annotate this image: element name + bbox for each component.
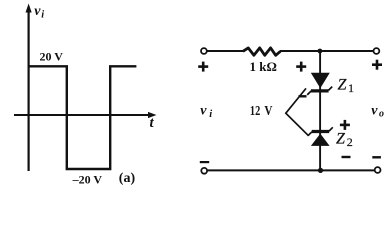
svg-text:1: 1 bbox=[348, 81, 354, 95]
svg-text:i: i bbox=[41, 10, 44, 21]
svg-text:o: o bbox=[379, 108, 384, 119]
svg-text:Z: Z bbox=[338, 77, 348, 94]
svg-text:i: i bbox=[209, 109, 212, 120]
svg-text:(a): (a) bbox=[119, 171, 136, 186]
svg-text:Z: Z bbox=[336, 131, 346, 148]
svg-text:v: v bbox=[200, 103, 207, 118]
svg-text:20 V: 20 V bbox=[40, 49, 64, 63]
svg-text:1 kΩ: 1 kΩ bbox=[250, 59, 277, 74]
svg-text:–20 V: –20 V bbox=[72, 173, 103, 187]
svg-text:12: 12 bbox=[250, 102, 260, 118]
svg-text:2: 2 bbox=[347, 135, 353, 149]
svg-text:V: V bbox=[264, 103, 272, 118]
svg-text:v: v bbox=[371, 103, 378, 118]
svg-text:v: v bbox=[34, 4, 41, 19]
